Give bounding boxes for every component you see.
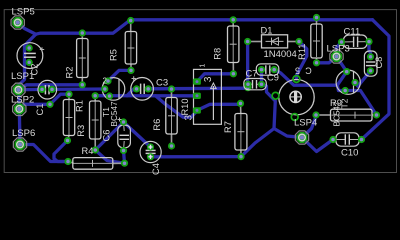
via V4 bbox=[46, 101, 53, 108]
wire T2 bottom horizontal to R9 right pad bbox=[339, 91, 377, 116]
transistor T2 bbox=[333, 68, 361, 127]
svg-text:C9: C9 bbox=[267, 73, 279, 83]
svg-text:R5: R5 bbox=[109, 49, 119, 61]
wire R3 top - T1 bottom - R10 pad2 bbox=[95, 94, 197, 97]
wire C6 top to C4 top (45deg) bbox=[124, 122, 151, 147]
resistor R1 bbox=[63, 91, 84, 144]
wire R11 top stub bbox=[314, 18, 317, 20]
svg-text:C3: C3 bbox=[156, 77, 168, 88]
wire R1 bottom to R4 left junction bbox=[54, 141, 68, 162]
svg-text:C: C bbox=[305, 66, 312, 76]
wire D1 left pad down to C9 left bbox=[246, 42, 249, 89]
svg-text:R2: R2 bbox=[65, 67, 75, 79]
wire R7 bottom up to junction bbox=[241, 129, 274, 157]
svg-text:R3: R3 bbox=[76, 125, 86, 137]
resistor R6 bbox=[152, 85, 177, 149]
svg-text:BC547: BC547 bbox=[333, 101, 342, 126]
wire C7 left to C9 right bbox=[260, 70, 263, 85]
resistor R9 bbox=[312, 98, 380, 121]
svg-text:C10: C10 bbox=[341, 147, 358, 158]
resistor R2 bbox=[65, 29, 89, 88]
wire C10 left to LSP4 bbox=[302, 138, 333, 152]
solder pad LSP1 bbox=[11, 71, 34, 96]
wire R10 pad1 to R8 bottom bbox=[197, 74, 233, 82]
svg-text:3: 3 bbox=[184, 114, 195, 120]
wire LSP4 to R9 left bbox=[302, 115, 316, 138]
svg-text:1N4004: 1N4004 bbox=[264, 49, 297, 60]
svg-text:C7: C7 bbox=[246, 68, 258, 78]
resistor R3 bbox=[76, 92, 101, 153]
wire LSP6 to R4 left bbox=[20, 145, 68, 162]
svg-text:C11: C11 bbox=[344, 27, 361, 38]
svg-text:R11: R11 bbox=[297, 44, 307, 60]
diode D1 1N4004 bbox=[244, 25, 303, 59]
wire LSP1 to LSP2 bbox=[17, 90, 21, 109]
svg-text:BC547: BC547 bbox=[110, 101, 119, 126]
capacitor C8 (polarized, vertical) bbox=[364, 51, 383, 76]
capacitor C11 bbox=[338, 27, 373, 49]
capacitor C3 (electrolytic circle) bbox=[131, 76, 168, 100]
wire R11 bottom to LSP3 bbox=[317, 57, 337, 63]
resistor R8 bbox=[213, 16, 239, 77]
svg-text:LSP6: LSP6 bbox=[12, 128, 35, 139]
wire R2 bottom to LSP1 bbox=[18, 85, 82, 90]
wire R3 bottom to C6 top (45deg) bbox=[95, 122, 123, 150]
wire T1 top to R5 bottom bbox=[108, 70, 131, 81]
svg-text:LSP4: LSP4 bbox=[294, 118, 317, 129]
wire C6 bottom to R4 right bbox=[124, 151, 125, 164]
capacitor C5 (large electrolytic / trimmer circle) bbox=[272, 65, 314, 120]
board outline frame bbox=[4, 10, 396, 173]
solder pad LSP3 bbox=[327, 44, 350, 64]
svg-text:LSP2: LSP2 bbox=[11, 95, 34, 106]
solder pad LSP2 bbox=[11, 95, 34, 116]
capacitor C7 bbox=[246, 64, 279, 79]
wire LSP3 to T2 top bbox=[337, 57, 347, 72]
svg-text:LSP1: LSP1 bbox=[11, 71, 34, 82]
capacitor C10 bbox=[329, 133, 365, 159]
wire junction up to C9 right pad bbox=[262, 84, 276, 128]
svg-text:C6: C6 bbox=[102, 130, 112, 142]
wire junction LSP5 net down left side to LSP1 bbox=[18, 34, 35, 90]
wire C3 right - R6 top - across to D1 via bbox=[148, 87, 248, 91]
wire R3 bottom to R4 right bbox=[95, 150, 124, 163]
resistor R11 bbox=[297, 14, 322, 67]
resistor R5 bbox=[109, 17, 137, 74]
wire C1 right to T1 middle bbox=[52, 87, 105, 91]
svg-text:LSP5: LSP5 bbox=[12, 6, 35, 17]
wire long top horizontal R5-R8-corner bbox=[131, 18, 373, 21]
svg-text:3: 3 bbox=[203, 76, 214, 82]
svg-text:R6: R6 bbox=[152, 119, 162, 131]
wire C11 right to C8 top bbox=[369, 42, 371, 57]
wire top-right corner down right edge to C10 bbox=[362, 20, 390, 140]
wire R10 pad3 to R7 top bbox=[197, 103, 241, 110]
solder pad LSP4 bbox=[294, 118, 317, 145]
svg-text:R4: R4 bbox=[82, 146, 94, 156]
wire T2 middle to C8 bottom bbox=[355, 71, 371, 87]
capacitor C9 bbox=[244, 73, 279, 90]
wire C1 left stub bbox=[20, 88, 42, 92]
wire branch to C3 left pad bbox=[127, 89, 137, 96]
wire C7 right pad diagonal to horizontal then T2 top bbox=[274, 70, 347, 86]
resistor R4 bbox=[64, 146, 128, 169]
svg-text:2: 2 bbox=[103, 77, 108, 86]
svg-text:R8: R8 bbox=[213, 48, 223, 60]
svg-text:R1: R1 bbox=[75, 100, 85, 112]
capacitor C6 (polarized, vertical) bbox=[102, 118, 131, 155]
svg-text:D1: D1 bbox=[261, 25, 273, 35]
wire R6 diagonal to R10 pad3 bbox=[156, 96, 198, 118]
resistor R7 bbox=[223, 100, 247, 160]
wire bottom horizontal C4 to R7 bottom bbox=[151, 155, 242, 158]
wire LSP2 to R1 top bbox=[19, 94, 69, 109]
via V1 bbox=[244, 84, 251, 91]
capacitor C4 (electrolytic circle) bbox=[140, 141, 161, 175]
svg-text:C8: C8 bbox=[374, 57, 384, 69]
wire LSP2 to LSP6 bbox=[18, 109, 22, 145]
wire LSP5 to junction bbox=[18, 23, 36, 35]
wire D1 right pad to C5 ring B bbox=[296, 42, 306, 80]
wire junction to R5 top via R2 top bbox=[36, 20, 131, 34]
svg-text:R10: R10 bbox=[180, 98, 190, 115]
svg-text:R7: R7 bbox=[223, 121, 233, 133]
solder pad LSP6 bbox=[12, 128, 35, 151]
trimmer R10 bbox=[180, 63, 221, 124]
svg-text:5: 5 bbox=[295, 65, 300, 75]
capacitor C2 (electrolytic circle) bbox=[17, 43, 44, 76]
svg-text:C4: C4 bbox=[151, 163, 161, 175]
svg-text:C1: C1 bbox=[35, 104, 45, 116]
capacitor C1 (electrolytic circle) bbox=[35, 80, 57, 115]
wire stub joining T2 bottom line to C7 line bbox=[337, 85, 338, 90]
transistor T1 bbox=[101, 77, 125, 127]
svg-text:LSP3: LSP3 bbox=[327, 44, 350, 55]
wire C11 left to LSP3 bbox=[337, 42, 342, 57]
svg-text:1: 1 bbox=[200, 63, 207, 67]
wire junction to LSP4 bbox=[274, 129, 302, 138]
solder pad LSP5 bbox=[11, 6, 35, 29]
